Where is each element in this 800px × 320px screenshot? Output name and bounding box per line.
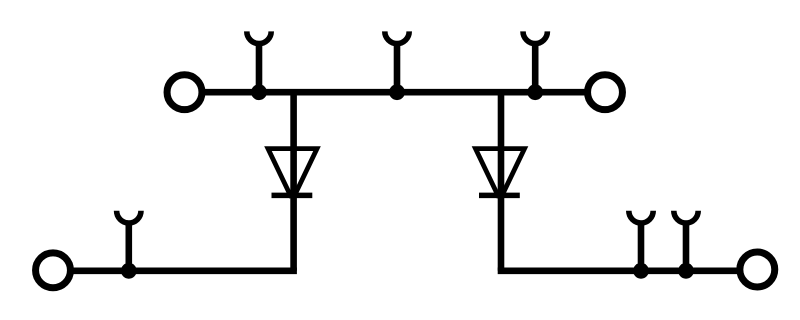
junction node bottom left: [121, 263, 137, 279]
wire right diode branch: [498, 92, 505, 271]
diode D1 cathode bar: [272, 193, 313, 199]
test tap bottom right 2 arc: [674, 211, 698, 223]
junction node top 1: [251, 84, 267, 100]
test tap top 2 arc: [385, 31, 409, 43]
wire top bus: [203, 89, 586, 96]
test tap top 2 stem: [394, 44, 401, 92]
terminal circle top-left: [167, 75, 202, 110]
test tap bottom left stem: [126, 223, 133, 270]
junction node top 2: [389, 84, 405, 100]
diode D2 cathode bar: [479, 193, 520, 199]
test tap top 3 stem: [532, 44, 539, 92]
test tap top 1 stem: [256, 44, 263, 92]
diode D1 triangle: [268, 149, 317, 196]
wire left diode branch: [290, 92, 297, 271]
junction node top 3: [527, 84, 543, 100]
test tap top 1 arc: [247, 31, 271, 43]
test tap bottom right 2 stem: [683, 223, 690, 270]
wire bottom right: [498, 267, 740, 274]
terminal circle bottom-right: [740, 252, 775, 287]
test tap top 3 arc: [523, 31, 547, 43]
terminal circle top-right: [588, 75, 623, 110]
junction node bottom right 2: [678, 263, 694, 279]
junction node bottom right 1: [633, 263, 649, 279]
wire bottom left: [70, 267, 297, 274]
test tap bottom right 1 arc: [629, 211, 653, 223]
diode D2 triangle: [476, 149, 525, 196]
test tap bottom left arc: [117, 211, 141, 223]
terminal circle bottom-left: [36, 253, 71, 288]
test tap bottom right 1 stem: [638, 223, 645, 270]
